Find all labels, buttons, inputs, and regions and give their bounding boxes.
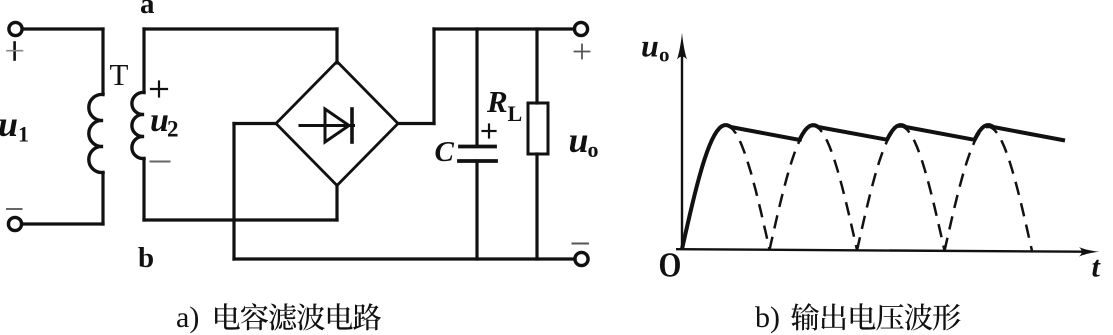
terminal bottom-left input [8, 217, 21, 230]
diode symbol inside bridge [300, 109, 354, 142]
svg-text:2: 2 [167, 117, 179, 142]
waveform y axis [681, 52, 683, 249]
wire bridge bottom to node b [144, 218, 337, 221]
waveform x axis [676, 249, 1083, 252]
minus sign input bottom [7, 208, 22, 210]
terminal output minus [575, 252, 588, 265]
waveform dashed rectified hump 4 [945, 127, 1033, 251]
svg-text:O: O [659, 245, 682, 284]
terminal output plus [574, 22, 587, 35]
terminal top-left input [9, 22, 22, 35]
resistor RL top lead [535, 29, 538, 103]
wire bridge left vertex horizontal [234, 122, 276, 125]
wire secondary top vertical [142, 29, 145, 92]
svg-text:b): b) [755, 301, 780, 334]
plus sign output [575, 45, 590, 59]
wire bridge bottom lead [335, 185, 338, 220]
svg-text:L: L [508, 101, 523, 126]
wire bridge right vertex horizontal [398, 122, 434, 125]
svg-text:T: T [110, 57, 129, 92]
svg-text:a: a [140, 0, 155, 20]
wire primary top vertical [101, 29, 104, 93]
wire bottom rail to output minus terminal [234, 257, 575, 260]
inductor secondary winding of transformer T [132, 92, 144, 158]
waveform dashed rectified hump 2 [770, 126, 858, 250]
svg-text:R: R [486, 84, 508, 119]
wire top-left to primary [22, 27, 103, 30]
waveform dashed rectified hump 1 falling [726, 125, 770, 249]
svg-text:a): a) [176, 301, 199, 334]
capacitor C bottom lead [475, 161, 478, 259]
svg-text:u: u [569, 120, 589, 160]
resistor RL body [528, 103, 548, 154]
svg-text:u: u [641, 28, 659, 64]
svg-text:b: b [138, 242, 154, 274]
diode bridge diamond outline [276, 62, 398, 186]
svg-text:C: C [435, 136, 455, 168]
plus sign input top [13, 43, 16, 60]
wire bottom-left to primary [22, 222, 103, 225]
svg-text:1: 1 [18, 122, 29, 147]
svg-text:u: u [0, 104, 18, 144]
waveform solid output voltage curve [682, 125, 1065, 249]
inductor primary winding of transformer T [89, 94, 103, 172]
resistor RL bottom lead [535, 154, 538, 259]
minus sign u2 polarity [151, 161, 170, 163]
wire node a to bridge top [144, 27, 337, 30]
wire top rail to output plus terminal [434, 27, 575, 30]
y axis arrowhead [677, 33, 687, 60]
capacitor C top lead [475, 29, 478, 146]
waveform dashed rectified hump 3 [857, 127, 945, 251]
minus sign output [573, 243, 589, 245]
svg-text:o: o [588, 137, 599, 162]
wire right branch vertical to top rail [432, 29, 435, 124]
plus sign capacitor polarity [483, 125, 496, 138]
plus sign u2 polarity [151, 82, 167, 97]
wire primary bottom vertical [101, 173, 104, 225]
capacitor C plates [459, 147, 496, 162]
wire secondary bottom vertical [142, 159, 145, 221]
wire bridge top lead [335, 29, 338, 63]
x axis arrowhead [1079, 247, 1100, 256]
svg-text:o: o [659, 43, 670, 67]
wire left branch vertical to bottom rail [232, 124, 235, 260]
